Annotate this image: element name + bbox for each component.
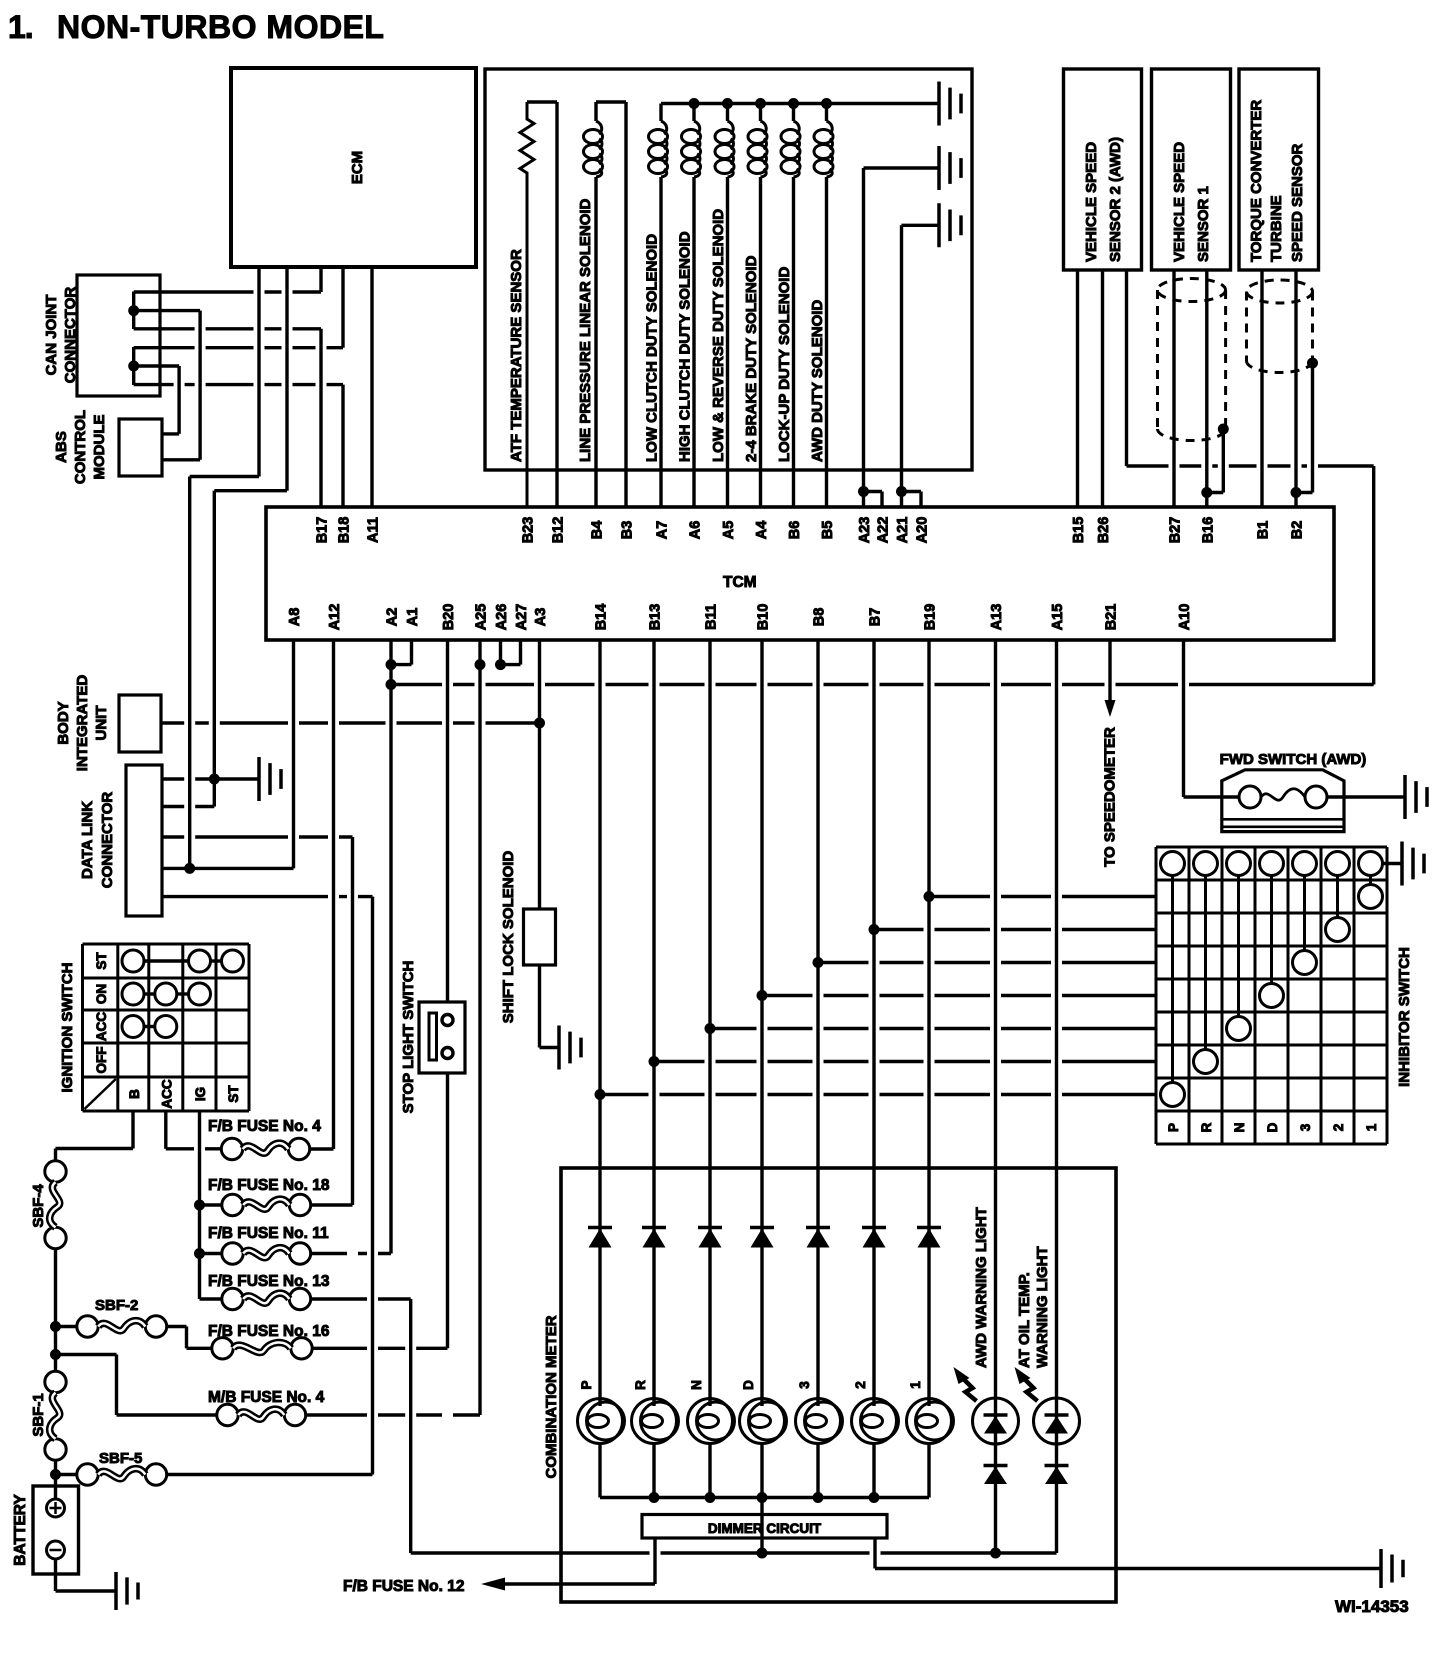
wire A1 bbox=[410, 640, 413, 665]
svg-text:N: N bbox=[689, 1380, 704, 1390]
coil LOCK-UP DUTY SOLENOID bbox=[792, 104, 795, 122]
svg-text:A5: A5 bbox=[721, 521, 737, 540]
ground DLC bbox=[259, 757, 281, 801]
svg-text:CONTROL: CONTROL bbox=[72, 410, 89, 484]
CAN JOINT CONNECTOR box bbox=[77, 275, 160, 396]
wire B16 bbox=[1205, 270, 1208, 507]
svg-text:NON-TURBO MODEL: NON-TURBO MODEL bbox=[57, 9, 384, 45]
svg-text:B13: B13 bbox=[648, 604, 664, 631]
wire fuse4 to A12 bbox=[310, 1147, 334, 1150]
wire A13 bbox=[994, 640, 997, 1553]
wire B7 bbox=[872, 640, 875, 1406]
svg-text:AT OIL TEMP.: AT OIL TEMP. bbox=[1016, 1272, 1033, 1368]
coil LOW &amp; REVERSE DUTY SOLENOID bbox=[726, 104, 729, 122]
junction rail bbox=[689, 98, 700, 109]
svg-text:UNIT: UNIT bbox=[93, 706, 110, 741]
battery plus terminal bbox=[47, 1499, 65, 1517]
svg-text:ACC: ACC bbox=[94, 1012, 109, 1041]
wire B21 bbox=[1108, 640, 1111, 701]
ground shift lock bbox=[559, 1026, 581, 1070]
svg-text:B: B bbox=[127, 1089, 142, 1099]
svg-text:STOP LIGHT SWITCH: STOP LIGHT SWITCH bbox=[400, 961, 417, 1114]
svg-text:B8: B8 bbox=[812, 608, 828, 627]
wire to SBF-2 bbox=[56, 1325, 77, 1328]
wire B3 bbox=[624, 102, 627, 507]
svg-text:LOW CLUTCH DUTY SOLENOID: LOW CLUTCH DUTY SOLENOID bbox=[644, 234, 661, 462]
wire to SBF-5 bbox=[56, 1473, 77, 1476]
wire B19 bbox=[927, 640, 930, 1406]
svg-text:AWD DUTY SOLENOID: AWD DUTY SOLENOID bbox=[809, 300, 826, 462]
contact stop light lower bbox=[442, 1048, 453, 1059]
junction lamp bus bbox=[649, 1492, 660, 1503]
wire A2 net to inhibitor side bbox=[391, 683, 1374, 686]
wire A20 bbox=[919, 492, 922, 508]
svg-text:DIMMER CIRCUIT: DIMMER CIRCUIT bbox=[708, 1521, 822, 1536]
svg-text:HIGH CLUTCH DUTY SOLENOID: HIGH CLUTCH DUTY SOLENOID bbox=[677, 231, 694, 462]
wire A27 bbox=[519, 640, 522, 665]
svg-text:A20: A20 bbox=[915, 517, 931, 544]
svg-text:A2: A2 bbox=[385, 608, 401, 627]
junction shield torque drain bbox=[1307, 358, 1318, 369]
lamp 3 bbox=[796, 1399, 841, 1444]
wire CAN3 to ECM bbox=[134, 346, 343, 349]
wire ign ACC terminal bbox=[164, 1111, 167, 1149]
lamp R bbox=[632, 1399, 677, 1444]
svg-text:SBF-5: SBF-5 bbox=[99, 1450, 142, 1467]
wire B14 bbox=[598, 640, 601, 1406]
svg-text:B10: B10 bbox=[756, 604, 772, 631]
svg-text:LOW & REVERSE DUTY SOLENOID: LOW & REVERSE DUTY SOLENOID bbox=[710, 209, 727, 462]
svg-text:B21: B21 bbox=[1104, 604, 1120, 631]
svg-text:F/B FUSE No. 13: F/B FUSE No. 13 bbox=[208, 1273, 330, 1290]
wire dimmer to ground bbox=[875, 1567, 1381, 1570]
IGNITION SWITCH table bbox=[83, 944, 250, 1111]
ground solenoid rail bbox=[939, 82, 961, 126]
wire B13 bbox=[652, 640, 655, 1406]
svg-text:CONNECTOR: CONNECTOR bbox=[99, 792, 116, 889]
FWD SWITCH body bbox=[1222, 770, 1344, 832]
lamp 2 bbox=[852, 1399, 897, 1444]
svg-text:ACC: ACC bbox=[160, 1079, 175, 1108]
svg-text:N: N bbox=[1232, 1123, 1247, 1133]
svg-text:B6: B6 bbox=[787, 521, 803, 540]
fuse F/B No. 16 bbox=[212, 1338, 233, 1359]
svg-text:ABS: ABS bbox=[53, 431, 70, 463]
wire ECM pin3 stub bbox=[319, 267, 322, 292]
wire inhibitor feed y896.5 bbox=[929, 895, 1156, 898]
svg-text:FWD SWITCH (AWD): FWD SWITCH (AWD) bbox=[1220, 751, 1367, 768]
svg-text:CAN JOINT: CAN JOINT bbox=[43, 295, 60, 376]
fuse element FWD bbox=[1261, 789, 1305, 800]
svg-text:DATA LINK: DATA LINK bbox=[79, 801, 96, 879]
junction B2 drain bbox=[1291, 487, 1302, 498]
wire B1 bbox=[1260, 270, 1263, 507]
wire to M/B fuse bbox=[56, 1353, 117, 1356]
fuse SBF-4 bbox=[45, 1161, 66, 1182]
wire VSS2 to A2 net bbox=[1127, 464, 1374, 467]
wire B17 bbox=[319, 329, 322, 507]
wire inhibitor feed y995.5 bbox=[762, 994, 1156, 997]
junction A2/A1 bbox=[386, 659, 397, 670]
TCM box bbox=[266, 507, 1334, 640]
svg-text:F/B FUSE No. 18: F/B FUSE No. 18 bbox=[208, 1177, 330, 1194]
COMBINATION METER box bbox=[561, 1168, 1116, 1602]
junction SBF-5 bbox=[50, 1469, 61, 1480]
svg-text:VEHICLE SPEED: VEHICLE SPEED bbox=[1083, 142, 1100, 262]
wire DLC pin2 bbox=[162, 805, 214, 808]
svg-text:B20: B20 bbox=[441, 604, 457, 631]
junction feed bbox=[869, 924, 880, 935]
wire ign B terminal bbox=[131, 1111, 134, 1149]
coil LINE PRESSURE LINEAR SOLENOID bbox=[594, 102, 597, 121]
lamp bottom leads and bus bbox=[598, 1444, 601, 1498]
svg-text:B17: B17 bbox=[315, 517, 331, 544]
wire inhibitor common to ground bbox=[1383, 862, 1403, 865]
wire B11 bbox=[708, 640, 711, 1406]
svg-text:SENSOR 2 (AWD): SENSOR 2 (AWD) bbox=[1107, 137, 1124, 262]
wire dimmer left pin bbox=[653, 1538, 656, 1584]
svg-text:A4: A4 bbox=[754, 521, 770, 540]
wire fuse18 to DLC bbox=[311, 1203, 353, 1206]
DIMMER CIRCUIT box bbox=[642, 1515, 887, 1539]
wire A12 bbox=[332, 640, 335, 1149]
svg-text:A12: A12 bbox=[327, 604, 343, 631]
wire ECM pin2 down bbox=[285, 267, 288, 491]
svg-text:B27: B27 bbox=[1168, 517, 1184, 544]
wire to F/B FUSE No. 12 bbox=[505, 1582, 655, 1585]
svg-text:B26: B26 bbox=[1096, 517, 1112, 544]
svg-text:TORQUE CONVERTER: TORQUE CONVERTER bbox=[1248, 100, 1265, 262]
svg-text:A13: A13 bbox=[989, 604, 1005, 631]
svg-text:F/B FUSE No. 11: F/B FUSE No. 11 bbox=[208, 1225, 329, 1242]
VEHICLE SPEED SENSOR 2 (AWD) box bbox=[1064, 69, 1142, 270]
junction A3 BIU bbox=[534, 718, 545, 729]
wire B18 bbox=[341, 385, 344, 507]
svg-text:3: 3 bbox=[1298, 1123, 1313, 1131]
junction A26 bbox=[495, 659, 506, 670]
wire fuseMB to A25 bbox=[306, 1413, 480, 1416]
svg-text:B23: B23 bbox=[521, 517, 537, 544]
svg-text:D: D bbox=[1265, 1122, 1280, 1132]
wire fuse11 to A2 bbox=[311, 1252, 391, 1255]
lamp 1 bbox=[907, 1399, 952, 1444]
contact FWD left bbox=[1239, 786, 1261, 808]
resistor ATF TEMPERATURE SENSOR bbox=[520, 102, 534, 507]
svg-text:2: 2 bbox=[853, 1381, 868, 1389]
wire inhibitor feed y962.5 bbox=[818, 961, 1156, 964]
wire shift lock to ground bbox=[538, 965, 541, 1048]
wire A21 bbox=[900, 225, 903, 507]
junction rail bbox=[722, 98, 733, 109]
arrow F/B FUSE No. 12 bbox=[481, 1578, 505, 1591]
junction lamp bus bbox=[813, 1492, 824, 1503]
svg-text:VEHICLE SPEED: VEHICLE SPEED bbox=[1171, 142, 1188, 262]
wire dimmer right pin bbox=[873, 1538, 876, 1569]
wire battery to ground bbox=[54, 1559, 57, 1591]
wire A22 bbox=[880, 492, 883, 508]
wire lower bus bbox=[411, 1551, 1057, 1554]
lamp P bbox=[578, 1399, 623, 1444]
wire A26 bbox=[499, 640, 502, 665]
svg-text:A7: A7 bbox=[655, 521, 671, 540]
wire solenoid ground rail bbox=[661, 102, 939, 105]
fuse M/B No. 4 bbox=[217, 1404, 238, 1425]
wire fuse13 to dimmer bus bbox=[409, 1299, 412, 1553]
wire B12 bbox=[555, 102, 558, 507]
wire A2 bbox=[389, 640, 392, 1254]
svg-text:A15: A15 bbox=[1050, 604, 1066, 631]
svg-text:B16: B16 bbox=[1200, 517, 1216, 544]
wire B10 bbox=[760, 640, 763, 1406]
wire stop light to fuse16 bbox=[446, 1073, 449, 1348]
svg-text:A3: A3 bbox=[533, 608, 549, 627]
SHIFT LOCK SOLENOID box bbox=[524, 909, 556, 965]
junction DLC ground bbox=[209, 774, 220, 785]
wire CAN2 to B17 bbox=[134, 327, 321, 330]
junction feed bbox=[924, 891, 935, 902]
ground inhibitor bbox=[1402, 842, 1424, 886]
junction feed bbox=[705, 1023, 716, 1034]
junction B16 drain bbox=[1201, 487, 1212, 498]
svg-text:TURBINE: TURBINE bbox=[1268, 195, 1285, 262]
junction shield VSS1 drain bbox=[1218, 424, 1229, 435]
wire B20 bbox=[446, 640, 449, 1002]
wire B27 bbox=[1172, 270, 1175, 507]
wire B15 bbox=[1076, 270, 1079, 507]
junction lamp bus bbox=[757, 1492, 768, 1503]
junction rail bbox=[755, 98, 766, 109]
svg-text:1: 1 bbox=[1364, 1123, 1379, 1131]
lamp N bbox=[688, 1399, 733, 1444]
wire D lamp to low bus bbox=[760, 1498, 763, 1554]
wire A21 ground bbox=[902, 224, 940, 227]
junction SBF-2 bbox=[50, 1321, 61, 1332]
junction M/B bbox=[50, 1349, 61, 1360]
lamp D bbox=[740, 1399, 785, 1444]
svg-text:A10: A10 bbox=[1177, 604, 1193, 631]
svg-text:INTEGRATED: INTEGRATED bbox=[74, 675, 91, 772]
LED AWD warning light bbox=[973, 1398, 1019, 1444]
svg-text:OFF: OFF bbox=[94, 1047, 109, 1074]
svg-text:B15: B15 bbox=[1071, 517, 1087, 544]
diode below AWD LED bbox=[984, 1464, 1008, 1468]
wire SBF-4 to SBF-1 bbox=[54, 1249, 57, 1372]
svg-text:TCM: TCM bbox=[723, 574, 757, 591]
fuse F/B No. 11 bbox=[222, 1243, 243, 1264]
wire ABS pin1 bbox=[162, 432, 179, 435]
svg-text:WARNING LIGHT: WARNING LIGHT bbox=[1034, 1246, 1051, 1368]
coil AWD DUTY SOLENOID bbox=[825, 104, 828, 122]
shield VSS1 dashed bbox=[1158, 279, 1226, 441]
coil LOW CLUTCH DUTY SOLENOID bbox=[659, 104, 662, 122]
svg-text:1.: 1. bbox=[8, 9, 33, 45]
svg-text:P: P bbox=[1166, 1123, 1181, 1132]
junction feed bbox=[595, 1089, 606, 1100]
fuse F/B No. 13 bbox=[222, 1288, 243, 1309]
svg-text:A1: A1 bbox=[405, 608, 421, 627]
svg-text:R: R bbox=[633, 1380, 648, 1390]
junction rail bbox=[788, 98, 799, 109]
junction lower bus D bbox=[757, 1548, 768, 1559]
wire A8 bbox=[292, 640, 295, 868]
svg-text:TO SPEEDOMETER: TO SPEEDOMETER bbox=[1102, 727, 1119, 867]
wire LINE bridge bbox=[596, 100, 626, 103]
wire ign IG terminal bbox=[198, 1111, 201, 1299]
junction A21/A20 bbox=[896, 486, 907, 497]
wire fuse13 right bbox=[311, 1297, 411, 1300]
coil HIGH CLUTCH DUTY SOLENOID bbox=[692, 104, 695, 122]
svg-text:B19: B19 bbox=[923, 604, 939, 631]
svg-text:SBF-1: SBF-1 bbox=[30, 1393, 47, 1436]
wire SBF-1 to battery bbox=[54, 1460, 57, 1499]
shield torque sensor dashed bbox=[1247, 280, 1313, 373]
svg-text:3: 3 bbox=[797, 1381, 812, 1389]
svg-text:IG: IG bbox=[193, 1087, 208, 1101]
svg-text:INHIBITOR SWITCH: INHIBITOR SWITCH bbox=[1396, 947, 1413, 1087]
INHIBITOR SWITCH grid bbox=[1156, 847, 1387, 1144]
svg-text:A26: A26 bbox=[494, 604, 510, 631]
wire A3 bbox=[538, 640, 541, 909]
svg-text:D: D bbox=[741, 1380, 756, 1390]
wire VSS2 pin3 bbox=[1125, 270, 1128, 466]
wire ECM1 left bbox=[190, 475, 259, 478]
svg-text:B5: B5 bbox=[820, 521, 836, 540]
svg-text:A23: A23 bbox=[857, 517, 873, 544]
junction lower bus A13 bbox=[990, 1548, 1001, 1559]
svg-text:CONNECTOR: CONNECTOR bbox=[62, 287, 79, 384]
arrow TO SPEEDOMETER bbox=[1105, 700, 1116, 717]
junction rail bbox=[821, 98, 832, 109]
wire ATF bridge bbox=[527, 100, 557, 103]
fuse SBF-1 bbox=[45, 1371, 66, 1392]
wire B2 bbox=[1294, 270, 1297, 507]
svg-text:MODULE: MODULE bbox=[91, 415, 108, 480]
svg-text:WI-14353: WI-14353 bbox=[1335, 1597, 1409, 1616]
wire inhibitor feed y1028.5 bbox=[710, 1027, 1156, 1030]
svg-text:ST: ST bbox=[226, 1085, 241, 1103]
wire inhibitor feed y1061.5 bbox=[654, 1060, 1156, 1063]
wire ECM2 left bbox=[214, 489, 287, 492]
VEHICLE SPEED SENSOR 1 box bbox=[1152, 69, 1231, 270]
svg-text:B2: B2 bbox=[1290, 521, 1306, 540]
svg-text:ST: ST bbox=[94, 952, 109, 970]
wire B26 bbox=[1101, 270, 1104, 507]
wire B8 bbox=[816, 640, 819, 1406]
battery minus terminal bbox=[47, 1541, 65, 1559]
wire CAN1 to ECM bbox=[134, 290, 321, 293]
junction feed bbox=[813, 957, 824, 968]
svg-text:A21: A21 bbox=[895, 517, 911, 544]
contact FWD right bbox=[1305, 786, 1327, 808]
svg-text:IGNITION SWITCH: IGNITION SWITCH bbox=[59, 963, 76, 1093]
TORQUE CONVERTER TURBINE SPEED SENSOR box bbox=[1239, 69, 1319, 270]
svg-text:SPEED SENSOR: SPEED SENSOR bbox=[1289, 143, 1306, 262]
contact stop light upper bbox=[442, 1015, 453, 1026]
svg-text:SBF-4: SBF-4 bbox=[30, 1184, 47, 1228]
svg-text:A6: A6 bbox=[688, 521, 704, 540]
svg-text:BATTERY: BATTERY bbox=[12, 1494, 29, 1566]
LED AT oil temp warning light bbox=[1034, 1398, 1080, 1444]
wire DLC pin1 to ground bbox=[162, 777, 259, 780]
svg-text:ON: ON bbox=[94, 984, 109, 1004]
wire DLC pin5 bbox=[162, 895, 373, 898]
inhibitor diagonal contacts and column wires bbox=[1171, 876, 1174, 1083]
wire FWD to ground bbox=[1327, 795, 1405, 798]
svg-text:B3: B3 bbox=[620, 521, 636, 540]
wire ABS pin2 bbox=[162, 458, 200, 461]
ECM box bbox=[231, 68, 476, 267]
svg-text:B11: B11 bbox=[704, 604, 720, 630]
svg-text:F/B FUSE No. 4: F/B FUSE No. 4 bbox=[208, 1118, 321, 1135]
wire DLC pin4 bbox=[162, 867, 294, 870]
svg-text:A8: A8 bbox=[287, 608, 303, 627]
svg-text:B1: B1 bbox=[1256, 521, 1272, 540]
svg-text:SHIFT LOCK SOLENOID: SHIFT LOCK SOLENOID bbox=[500, 851, 517, 1024]
svg-text:SBF-2: SBF-2 bbox=[95, 1297, 138, 1314]
inhibitor top contacts bbox=[1161, 852, 1185, 876]
fuse F/B No. 4 bbox=[221, 1138, 242, 1159]
STOP LIGHT SWITCH box bbox=[419, 1002, 465, 1073]
svg-text:B14: B14 bbox=[594, 604, 610, 631]
junction feed bbox=[649, 1056, 660, 1067]
svg-text:1: 1 bbox=[908, 1381, 923, 1389]
svg-text:B7: B7 bbox=[868, 608, 884, 627]
wire A10 bbox=[1182, 640, 1185, 797]
junction A25 bbox=[475, 659, 486, 670]
ABS CONTROL MODULE box bbox=[119, 419, 162, 476]
svg-text:COMBINATION METER: COMBINATION METER bbox=[543, 1315, 560, 1478]
wire A11 bbox=[370, 267, 373, 507]
svg-text:B18: B18 bbox=[337, 517, 353, 544]
wire CAN4 to B18 bbox=[134, 383, 343, 386]
wire SBF-5 to DLC riser bbox=[167, 1473, 373, 1476]
junction IG fuse18 bbox=[194, 1200, 205, 1211]
wire VSS1 shield drain bbox=[1222, 429, 1225, 493]
wire A25 bbox=[478, 640, 481, 1415]
svg-text:A25: A25 bbox=[474, 604, 490, 631]
junction feed bbox=[757, 990, 768, 1001]
coil 2-4 BRAKE DUTY SOLENOID bbox=[759, 104, 762, 122]
diode below AT LED bbox=[1045, 1464, 1069, 1468]
svg-text:SENSOR 1: SENSOR 1 bbox=[1195, 186, 1212, 262]
svg-text:2-4 BRAKE DUTY SOLENOID: 2-4 BRAKE DUTY SOLENOID bbox=[743, 255, 760, 462]
svg-text:F/B FUSE No. 12: F/B FUSE No. 12 bbox=[343, 1578, 464, 1595]
wire fuse16 to stop light bbox=[312, 1347, 447, 1350]
junction lamp bus bbox=[869, 1492, 880, 1503]
BODY INTEGRATED UNIT box bbox=[119, 695, 161, 752]
svg-text:P: P bbox=[579, 1380, 594, 1389]
wire B to SBF-4 bbox=[54, 1149, 57, 1161]
BATTERY box bbox=[33, 1486, 79, 1574]
fuse SBF-2 bbox=[77, 1316, 98, 1337]
svg-text:B4: B4 bbox=[590, 521, 606, 540]
svg-text:ECM: ECM bbox=[349, 151, 366, 184]
junction A23/A22 bbox=[858, 486, 869, 497]
wire CAN dot1 to ABS bbox=[134, 309, 200, 312]
svg-text:ATF TEMPERATURE SENSOR: ATF TEMPERATURE SENSOR bbox=[508, 249, 525, 462]
junction lamp bus bbox=[705, 1492, 716, 1503]
wire A10 to FWD switch bbox=[1184, 795, 1240, 798]
wire CAN pin lower bbox=[132, 347, 135, 385]
fuse SBF-5 bbox=[77, 1464, 98, 1485]
wire DLC pin3 bbox=[162, 835, 353, 838]
wire CAN dot2 to ABS bbox=[134, 364, 179, 367]
wire inhibitor feed y929.5 bbox=[874, 928, 1156, 931]
wire CAN pin upper bbox=[132, 292, 135, 330]
junction CAN upper bbox=[128, 305, 139, 316]
svg-text:BODY: BODY bbox=[55, 701, 72, 744]
fuse F/B No. 18 bbox=[222, 1194, 243, 1215]
